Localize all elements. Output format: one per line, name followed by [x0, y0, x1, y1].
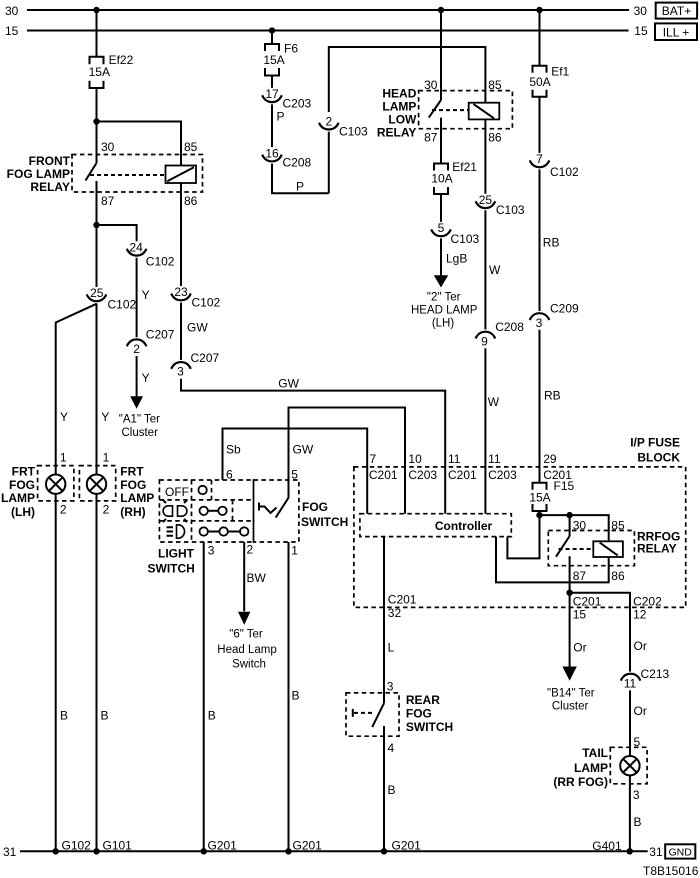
svg-text:(LH): (LH) [432, 318, 455, 330]
svg-text:86: 86 [611, 569, 625, 583]
svg-text:31: 31 [3, 845, 17, 859]
svg-text:C208: C208 [283, 156, 312, 170]
svg-text:B: B [634, 815, 642, 829]
svg-text:FOG LAMP: FOG LAMP [7, 167, 70, 181]
wire relay 86 down to connector 23 [180, 183, 182, 286]
wire bus30 to head lamp low relay pin 30 [440, 10, 442, 100]
svg-text:Switch: Switch [232, 659, 266, 671]
wire controller pin 32 down to rear fog switch, labels C201 32 L [384, 537, 417, 704]
svg-text:B: B [101, 709, 109, 723]
fog switch box [254, 480, 349, 542]
svg-text:15A: 15A [89, 65, 110, 79]
light switch park icon [163, 500, 187, 522]
wire F6 to connector 17 C203 [271, 76, 273, 88]
wire junction C to RRFOG relay pins 30/85 [540, 515, 609, 541]
head lamp low relay switch blade [429, 100, 441, 118]
svg-text:C203: C203 [283, 97, 312, 111]
wire junction A to relay pin 30 [96, 122, 98, 164]
svg-text:LAMP: LAMP [1, 491, 35, 505]
svg-text:7: 7 [536, 152, 543, 166]
junction on bus 30 at head lamp low relay [438, 7, 444, 13]
svg-text:16: 16 [265, 146, 279, 160]
wire Ef22 to junction A [96, 88, 98, 122]
svg-text:LAMP: LAMP [120, 491, 154, 505]
svg-text:C203: C203 [408, 468, 437, 482]
svg-text:Controller: Controller [435, 519, 493, 533]
svg-text:BLOCK: BLOCK [637, 450, 680, 464]
light switch contact row OFF [198, 486, 206, 494]
svg-text:G401: G401 [592, 839, 622, 853]
svg-text:Sb: Sb [226, 443, 241, 457]
svg-text:B: B [292, 689, 300, 703]
svg-text:30: 30 [424, 78, 438, 92]
svg-text:SWITCH: SWITCH [406, 720, 453, 734]
svg-text:30: 30 [5, 4, 19, 18]
svg-text:FRONT: FRONT [29, 154, 71, 168]
wire bus30 to fuse Ef22 [96, 10, 98, 57]
svg-text:C201: C201 [369, 468, 398, 482]
svg-text:C209: C209 [550, 302, 579, 316]
connector 2 C103 [319, 114, 368, 138]
svg-text:11: 11 [488, 452, 501, 466]
wire 24 C102 to 2 C207, label Y [137, 258, 150, 337]
svg-text:L: L [388, 640, 395, 654]
FRT FOG LAMP (LH) lamp [1, 451, 74, 520]
svg-text:3: 3 [208, 543, 215, 557]
svg-text:ILL +: ILL + [663, 25, 690, 39]
wire 3 C209 to I/P block pin 29, label RB [540, 330, 561, 483]
wire light switch pin 2 down, label BW [244, 542, 266, 611]
svg-text:30: 30 [101, 140, 115, 154]
destination text "A1" Ter Cluster [119, 413, 160, 439]
svg-text:15: 15 [573, 607, 587, 621]
svg-text:87: 87 [101, 194, 115, 208]
svg-text:3: 3 [387, 679, 394, 693]
svg-text:C201: C201 [573, 594, 602, 608]
svg-text:W: W [489, 263, 501, 277]
RRFOG relay switch blade [556, 536, 570, 557]
bus 30 (BAT+) wire [27, 9, 629, 11]
svg-text:2: 2 [247, 543, 254, 557]
wire fog switch pin 5 up and right to I/P pin 10, label GW [289, 408, 406, 514]
svg-text:SWITCH: SWITCH [301, 515, 348, 529]
svg-text:C103: C103 [451, 232, 480, 246]
wire RRFOG coil 86 to controller [496, 537, 609, 583]
front fog lamp relay FR1 [7, 140, 203, 208]
svg-text:C203: C203 [488, 468, 517, 482]
svg-text:LgB: LgB [446, 251, 467, 265]
svg-text:C102: C102 [192, 295, 221, 309]
svg-text:C207: C207 [191, 351, 220, 365]
svg-text:REAR: REAR [406, 693, 440, 707]
RRFOG relay [548, 519, 680, 583]
svg-text:Y: Y [142, 288, 150, 302]
svg-text:P: P [277, 110, 285, 124]
svg-text:GW: GW [278, 376, 299, 390]
wire junction A to relay coil pin 85 [97, 122, 182, 166]
wire F15 to junction C [539, 511, 541, 515]
svg-text:C208: C208 [495, 320, 524, 334]
svg-text:G101: G101 [103, 839, 133, 853]
svg-text:FRT: FRT [120, 464, 144, 478]
svg-text:"2" Ter: "2" Ter [427, 292, 461, 304]
svg-text:29: 29 [543, 452, 557, 466]
svg-text:25: 25 [479, 193, 493, 207]
connector 3 C207 [171, 351, 219, 379]
svg-text:(RR FOG): (RR FOG) [553, 775, 608, 789]
wire 25 C102 diagonal to left branch, label Y [56, 304, 97, 475]
svg-text:2: 2 [103, 503, 110, 517]
svg-text:C201: C201 [448, 468, 477, 482]
svg-text:GW: GW [187, 321, 208, 335]
svg-text:2: 2 [60, 503, 67, 517]
I/P block pin 10 C203 [408, 452, 437, 482]
ground G401 [592, 839, 633, 855]
front fog lamp relay linkage (dashed) [90, 174, 166, 176]
bus 31 (GND) wire [20, 850, 648, 852]
svg-text:C201: C201 [388, 592, 417, 606]
wire Ef21 to connector 5 C103 [440, 194, 442, 222]
svg-text:23: 23 [174, 285, 188, 299]
ground G201 (light switch) [201, 839, 238, 855]
connector 24 C102 [127, 241, 175, 269]
svg-text:RELAY: RELAY [637, 542, 677, 556]
RRFOG relay linkage (dashed) [559, 548, 594, 550]
svg-text:85: 85 [184, 140, 198, 154]
wire bus30 to fuse Ef1 [539, 10, 541, 66]
svg-text:C102: C102 [146, 255, 175, 269]
junction D (RRFOG pin 30) [566, 512, 572, 518]
wire 3 C207 right to I/P block pin 11 C201, label GW [181, 376, 445, 513]
connector 5 C103 [431, 221, 479, 246]
wire 17 C203 to 16 C208, label P [272, 104, 285, 147]
svg-text:W: W [488, 395, 500, 409]
svg-text:SWITCH: SWITCH [148, 562, 195, 576]
svg-text:TAIL: TAIL [582, 746, 608, 760]
svg-text:G201: G201 [293, 839, 323, 853]
svg-text:2: 2 [133, 342, 140, 356]
wire relay pin 87 down [96, 181, 98, 225]
svg-text:Y: Y [60, 410, 68, 424]
connector 7 C102 [530, 152, 579, 179]
svg-text:87: 87 [573, 569, 587, 583]
svg-text:LAMP: LAMP [574, 761, 608, 775]
front fog lamp relay coil [166, 166, 197, 184]
svg-text:1: 1 [103, 451, 110, 465]
connector 23 C102 [171, 285, 220, 309]
wire junction B down to connector 25 [96, 225, 98, 287]
svg-text:4: 4 [388, 741, 395, 755]
wire lamp LH pin 2 to ground G102, label B [56, 494, 68, 851]
svg-text:30: 30 [573, 519, 587, 533]
I/P block pin 29 C201 [543, 452, 572, 482]
I/P block pin 11 C203 [488, 452, 517, 482]
rear fog switch blade [372, 703, 384, 727]
svg-text:85: 85 [488, 78, 502, 92]
arrow to cluster A1 [130, 396, 143, 409]
wire 2 C207 down, label Y [137, 356, 150, 396]
svg-text:1: 1 [60, 451, 67, 465]
wire 5 C103 down, label LgB [441, 238, 467, 275]
svg-text:Ef21: Ef21 [452, 160, 477, 174]
svg-text:F6: F6 [284, 42, 298, 56]
svg-text:25: 25 [90, 286, 104, 300]
svg-text:Cluster: Cluster [121, 427, 158, 439]
arrow to cluster B14 [562, 667, 576, 681]
svg-text:15A: 15A [263, 53, 284, 67]
wire relay 87 to fuse Ef21 [440, 118, 442, 164]
junction C (below F15) [536, 512, 542, 518]
svg-text:LAMP: LAMP [382, 100, 416, 114]
svg-text:9: 9 [481, 334, 488, 348]
svg-text:"6" Ter: "6" Ter [229, 629, 263, 641]
svg-text:"B14" Ter: "B14" Ter [547, 688, 595, 700]
junction B (relay 87 branch) [93, 222, 99, 228]
svg-text:G201: G201 [208, 839, 238, 853]
wire 2 C103 up and right to head lamp low relay pin 85 [329, 47, 486, 112]
svg-text:86: 86 [184, 194, 198, 208]
svg-text:Or: Or [573, 640, 586, 654]
wire junction E down, label Or [570, 593, 587, 667]
svg-text:HEAD: HEAD [382, 87, 416, 101]
connector 16 C208 [262, 146, 311, 169]
svg-text:3: 3 [177, 365, 184, 379]
svg-text:31: 31 [649, 845, 663, 859]
svg-text:15A: 15A [529, 491, 550, 505]
fuse F15 15A [529, 479, 574, 511]
rear fog switch linkage (dashed) [353, 709, 374, 717]
wire fog switch pin 1 to ground G201, label B [289, 542, 300, 851]
connector 2 C207 [127, 328, 175, 356]
svg-text:B: B [208, 709, 216, 723]
svg-text:FOG: FOG [302, 500, 328, 514]
svg-text:86: 86 [488, 131, 502, 145]
connector 11 C213 [621, 667, 670, 690]
I/P block pin 11 C201 [448, 452, 477, 482]
svg-text:B: B [388, 783, 396, 797]
svg-text:GND: GND [669, 846, 693, 858]
wire junction B right to connector 24 [97, 225, 137, 241]
svg-text:F15: F15 [554, 479, 575, 493]
svg-text:24: 24 [129, 241, 143, 255]
arrow to head lamp (LH) [434, 275, 448, 287]
svg-text:1: 1 [291, 543, 298, 557]
ground G101 [93, 839, 132, 855]
front fog lamp relay switch blade [86, 163, 97, 181]
head lamp low relay coil [469, 103, 500, 120]
head lamp low relay HR1 [377, 78, 513, 145]
fog switch contact [259, 498, 289, 518]
destination text "B14" Ter Cluster [547, 688, 595, 713]
svg-text:5: 5 [438, 221, 445, 235]
wire junction E right to C202 pin 12 [570, 593, 630, 672]
fuse Ef22 15A [89, 53, 134, 88]
svg-text:(RH): (RH) [120, 505, 145, 519]
wire Ef1 to connector 7 C102 [539, 97, 541, 153]
tail lamp (RR FOG) [553, 746, 647, 789]
wire bus15 to fuse F6 [271, 31, 273, 45]
light switch contact row park [200, 507, 227, 515]
connector 3 C209 [530, 302, 579, 330]
light switch headlamp icon [167, 525, 185, 538]
svg-text:12: 12 [633, 607, 647, 621]
fuse Ef1 50A [529, 64, 569, 97]
ILL+ box [655, 23, 697, 40]
svg-text:11: 11 [624, 676, 637, 690]
svg-text:C207: C207 [146, 328, 175, 342]
fuse F6 15A [263, 42, 298, 76]
bus 15 (ILL+) wire [27, 30, 629, 32]
svg-text:Ef1: Ef1 [551, 64, 569, 78]
head lamp low relay linkage (dashed) [432, 109, 469, 111]
svg-text:BAT+: BAT+ [662, 4, 691, 18]
svg-text:85: 85 [611, 519, 625, 533]
svg-text:LIGHT: LIGHT [158, 547, 195, 561]
FRT FOG LAMP (RH) lamp [79, 451, 154, 520]
ground G201 (fog switch) [285, 839, 322, 855]
ground G201 (rear fog switch) [381, 839, 421, 855]
BAT+ box [656, 3, 697, 19]
wire 11 C213 to tail lamp pin 5, labels Or 5 [630, 690, 647, 756]
wire lamp RH pin 2 to ground G101, label B [97, 494, 109, 851]
svg-text:11: 11 [448, 452, 461, 466]
wire 9 C208 to I/P block pin 11, label W [485, 348, 499, 513]
junction on bus 30 at Ef22 [93, 7, 99, 13]
svg-text:15: 15 [5, 24, 19, 38]
svg-text:T8B15016: T8B15016 [643, 864, 699, 878]
svg-text:32: 32 [388, 606, 402, 620]
svg-text:B: B [60, 709, 68, 723]
light switch contact row head [200, 527, 249, 535]
svg-text:Cluster: Cluster [552, 701, 589, 713]
svg-text:C213: C213 [641, 667, 670, 681]
junction on bus 15 at F6 [269, 27, 275, 33]
svg-text:I/P FUSE: I/P FUSE [630, 436, 680, 450]
svg-text:FOG: FOG [120, 478, 146, 492]
wire light switch pin 6 up and right to I/P pin 7, labels Sb [223, 429, 368, 514]
svg-text:10: 10 [408, 452, 422, 466]
svg-text:17: 17 [265, 87, 279, 101]
connector 9 C208 [476, 320, 525, 349]
svg-text:LOW: LOW [388, 113, 417, 127]
svg-text:C202: C202 [633, 594, 662, 608]
connector 17 C203 [262, 87, 311, 111]
arrow to head lamp switch [238, 612, 250, 625]
svg-text:C103: C103 [339, 125, 368, 139]
svg-text:30: 30 [634, 4, 648, 18]
svg-text:BW: BW [247, 571, 267, 585]
svg-text:C102: C102 [108, 298, 137, 312]
svg-text:HEAD LAMP: HEAD LAMP [411, 305, 478, 317]
svg-text:Ef22: Ef22 [109, 53, 134, 67]
svg-text:G201: G201 [392, 839, 422, 853]
riser wire to connector 2 C103 [328, 132, 330, 194]
connector 25 C103 [476, 193, 525, 217]
junction A (above front fog lamp relay) [93, 118, 99, 124]
rear fog switch [346, 693, 453, 736]
connector C202 pin 12 labels [633, 594, 662, 621]
fuse Ef21 10A [431, 160, 477, 194]
svg-text:(LH): (LH) [11, 505, 35, 519]
svg-text:7: 7 [370, 452, 377, 466]
svg-text:2: 2 [325, 114, 332, 128]
destination text "6" Ter Head Lamp Switch [217, 629, 276, 671]
svg-text:RELAY: RELAY [30, 180, 70, 194]
controller box [360, 514, 511, 537]
connector C201 pin 15 labels [573, 594, 602, 621]
connector 25 C102 [87, 286, 137, 311]
svg-text:10A: 10A [431, 171, 452, 185]
wire light switch pin 3 to ground G201, label B [204, 542, 216, 851]
wire junction C down-left to controller [507, 515, 539, 558]
svg-text:50A: 50A [529, 75, 550, 89]
svg-text:RELAY: RELAY [377, 125, 417, 139]
I/P block pin 7 C201 [369, 452, 398, 482]
ground G102 [53, 839, 92, 855]
light switch assembly [148, 480, 254, 576]
svg-text:G102: G102 [62, 839, 92, 853]
svg-text:RB: RB [544, 388, 561, 402]
RRFOG relay coil [593, 541, 623, 557]
wire relay 86 down [484, 119, 486, 193]
svg-text:OFF: OFF [165, 485, 189, 499]
svg-text:C102: C102 [550, 165, 579, 179]
wire 25 C103 to 9 C208, label W [485, 210, 501, 329]
wire 7 C102 to 3 C209, label RB [540, 169, 560, 311]
svg-text:15: 15 [634, 24, 648, 38]
wire RRFOG pin 30 into relay [569, 515, 571, 536]
svg-text:Y: Y [101, 410, 109, 424]
svg-text:"A1" Ter: "A1" Ter [119, 413, 160, 425]
junction on bus 30 at Ef1 [536, 7, 542, 13]
wire 16 C208 right to riser, label P [272, 164, 329, 194]
wire rear fog switch pin 4 to ground G201, labels 4 B [384, 726, 396, 851]
svg-text:Or: Or [634, 639, 647, 653]
wire RRFOG pin 87 to junction E [569, 556, 571, 593]
svg-text:Or: Or [634, 704, 647, 718]
svg-text:FRT: FRT [12, 464, 36, 478]
destination text "2" Ter HEAD LAMP (LH) [411, 292, 478, 330]
svg-text:P: P [296, 180, 304, 194]
svg-text:87: 87 [424, 131, 438, 145]
svg-text:FOG: FOG [406, 706, 432, 720]
svg-text:Y: Y [142, 371, 150, 385]
wire 23 C102 to 3 C207, label GW [181, 303, 208, 360]
wire 25 C102 down to FRT FOG LAMP (RH), label Y [97, 303, 110, 474]
wire tail lamp pin 3 to ground G401, labels 3 B [630, 775, 642, 851]
svg-text:GW: GW [293, 443, 314, 457]
svg-text:C103: C103 [496, 203, 525, 217]
junction E (pin 87 split) [566, 590, 572, 596]
svg-text:3: 3 [536, 316, 543, 330]
I/P fuse block [354, 436, 686, 608]
svg-text:FOG: FOG [9, 478, 35, 492]
GND box [665, 844, 695, 858]
svg-text:3: 3 [633, 788, 640, 802]
svg-text:Head Lamp: Head Lamp [217, 644, 276, 656]
svg-text:RB: RB [543, 235, 560, 249]
